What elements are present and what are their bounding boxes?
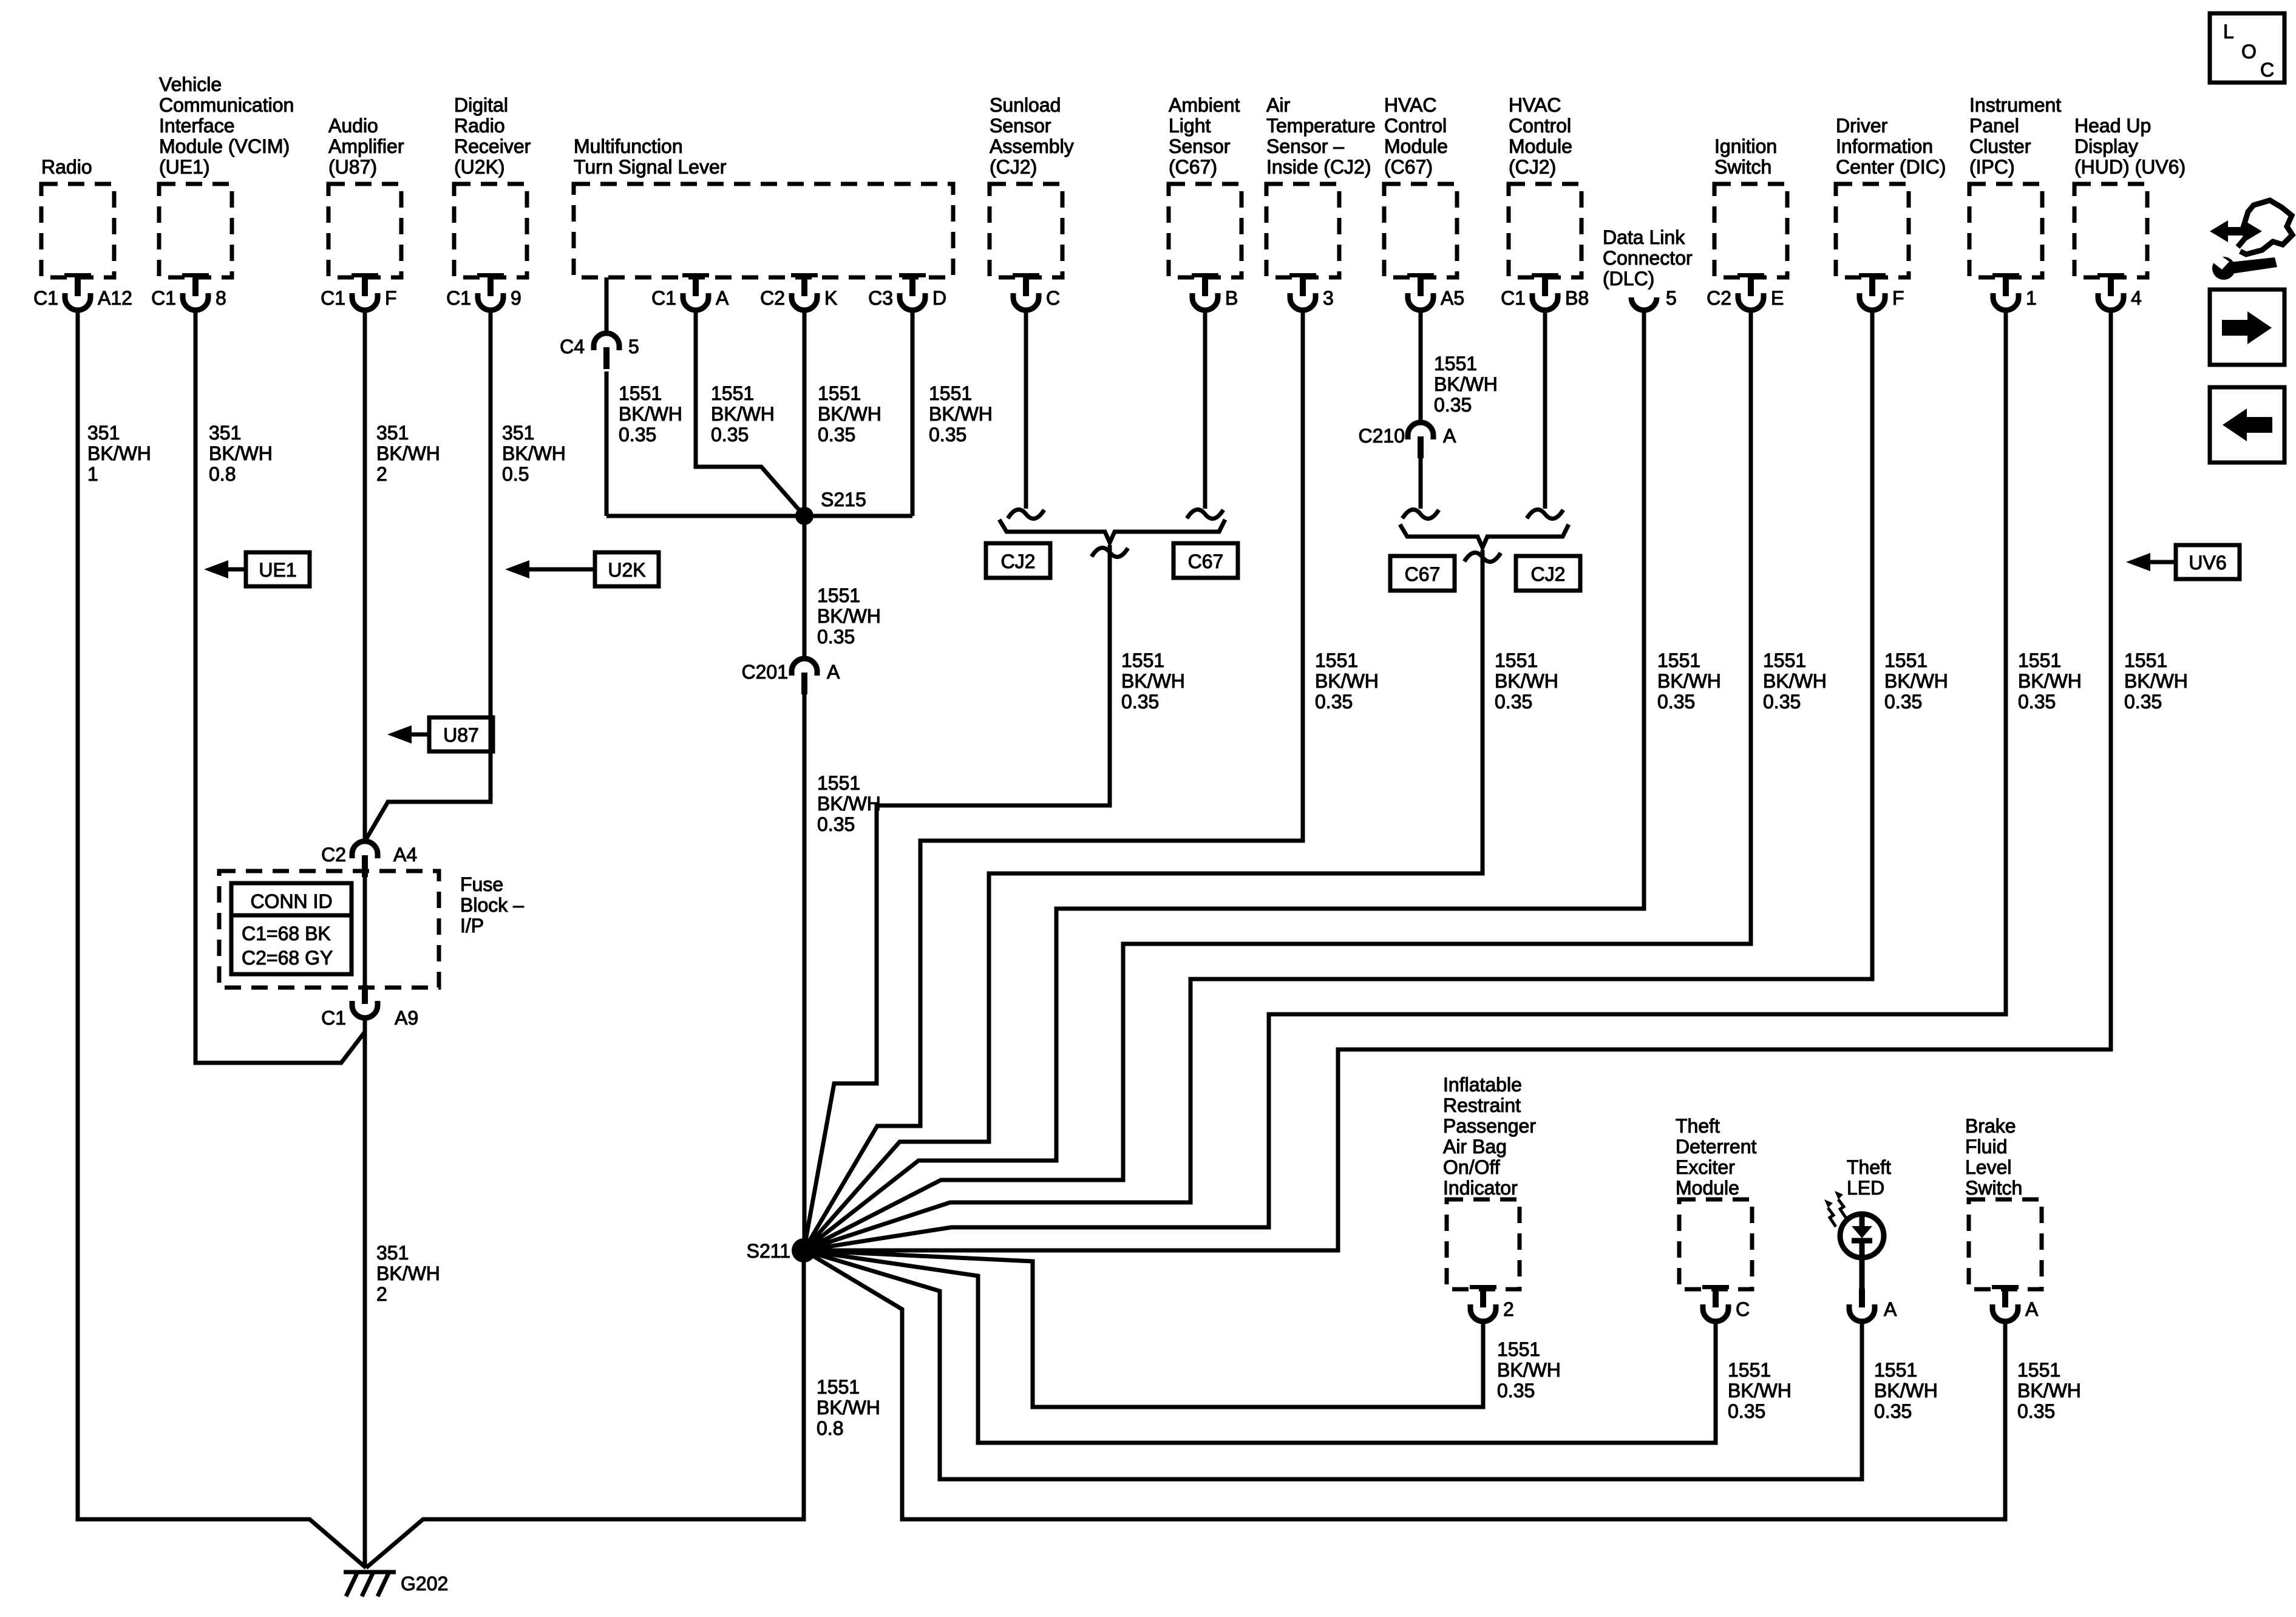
flag UV6 (to HUD wire) [2126,545,2240,579]
svg-text:A9: A9 [395,1007,418,1029]
component box: Head Up Display HUD UV6 [2074,184,2147,277]
svg-text:3: 3 [1323,287,1334,309]
wire: Air Temperature Sensor pin 3 1551 BK/WH 0.35 to S211 [804,310,1303,1250]
component box: HVAC Control Module C67 [1384,184,1457,277]
flag U87 (to Audio Amplifier wire) [387,717,493,751]
svg-text:C: C [1046,287,1060,309]
wire: fuse block 351 BK/WH 2 to ground [363,1018,367,1568]
wire: VCIM 351 BK/WH 0.8 to fuse block C1 A9 [195,310,365,1063]
svg-text:C: C [1736,1298,1750,1320]
ground G202 [344,1572,448,1596]
svg-text:CONN ID: CONN ID [250,890,332,912]
svg-text:O: O [2241,41,2257,63]
wire: S211 trunk 1551 BK/WH 0.8 to ground [366,1250,804,1568]
svg-text:A5: A5 [1441,287,1464,309]
wire: Ambient Light Sensor pin B 1551 BK/WH 0.35 [1203,310,1207,509]
svg-text:UE1: UE1 [259,559,296,581]
connector C210 pin A (inline) [1359,422,1457,458]
svg-text:C2=68 GY: C2=68 GY [242,947,333,969]
connector pin C of Sunload Sensor Assembly CJ2 [1013,273,1060,310]
component box: Ignition Switch [1714,184,1787,277]
net tag C67 (Ambient side) [1173,543,1238,578]
component box: HVAC Control Module CJ2 [1509,184,1581,277]
svg-text:C67: C67 [1188,551,1224,572]
component box: Ambient Light Sensor C67 [1169,184,1241,277]
wire: C201 to S211 1551 BK/WH 0.35 [803,694,807,1250]
svg-text:S211: S211 [747,1240,790,1262]
svg-text:2: 2 [1503,1298,1514,1320]
splice S215 [795,507,813,525]
svg-text:C: C [2260,59,2274,81]
strain squiggle (Sunload wire end) [1008,510,1044,519]
wire: S211 to Air Bag Indicator pin 2 1551 BK/WH 0.35 [804,1250,1483,1407]
connector pin F of Driver Information Center DIC [1859,273,1904,310]
svg-text:A: A [1884,1298,1897,1320]
harness brace (Sunload/Ambient) [999,520,1225,543]
svg-text:Radio: Radio [41,156,92,178]
connector pin C1/F of Audio Amplifier U87 [321,273,396,310]
connector pin 2 of Inflatable Restraint Passenger Air Bag On/Off Indicator [1470,1285,1514,1321]
svg-text:C3: C3 [868,287,893,309]
svg-text:U87: U87 [443,724,479,746]
svg-text:C1: C1 [446,287,471,309]
component box: Radio [41,184,114,277]
svg-text:C1: C1 [1501,287,1526,309]
net tag CJ2 (HVAC B8 side) [1516,556,1580,591]
left-arrow legend box [2210,387,2284,463]
svg-text:A: A [716,287,729,309]
component box: Driver Information Center DIC [1836,184,1909,277]
right-arrow legend box [2210,290,2284,365]
svg-text:TheftLED: TheftLED [1847,1156,1891,1199]
connector pin C1/A12 of Radio [33,273,132,310]
connector pin C2/E of Ignition Switch [1707,273,1784,310]
wire: Ignition Switch C2-E 1551 BK/WH 0.35 to S211 [804,310,1751,1250]
svg-text:UV6: UV6 [2189,552,2226,574]
component box: Air Temperature Sensor - Inside CJ2 [1266,184,1339,277]
component box: Inflatable Restraint Passenger Air Bag On/Off Indicator [1447,1199,1520,1289]
svg-text:C1=68 BK: C1=68 BK [242,923,331,944]
connector pin C1/9 of Digital Radio Receiver U2K [446,273,521,310]
connector pin A of Theft LED [1849,1289,1897,1321]
svg-text:5: 5 [628,336,639,358]
component box: Digital Radio Receiver U2K [454,184,527,277]
wire: HVAC Control Module A5 1551 BK/WH 0.35 to C210 [1419,310,1423,422]
wire: S215 bus [606,514,912,518]
svg-text:A: A [827,661,840,683]
svg-text:F: F [1892,287,1904,309]
svg-text:E: E [1771,287,1784,309]
svg-text:C4: C4 [560,336,585,358]
svg-text:L: L [2223,21,2234,42]
component box: Fuse Block - I/P [219,871,439,988]
wire: S211 to Theft Deterrent pin C 1551 BK/WH 0.35 [804,1250,1716,1443]
connector C1 pin A9 (fuse block bottom) [321,985,418,1029]
wire: merged Sunload/Ambient 1551 BK/WH 0.35 to S211 [804,545,1110,1250]
component box: Sunload Sensor Assembly CJ2 [990,184,1062,277]
svg-text:F: F [385,287,397,309]
svg-text:C2: C2 [1707,287,1731,309]
svg-text:4: 4 [2131,287,2142,309]
LOC legend box [2210,13,2284,83]
component box: Audio Amplifier U87 [328,184,401,277]
wire: HUD pin 4 1551 BK/WH 0.35 to S211 [804,310,2111,1250]
svg-text:1: 1 [2026,287,2037,309]
CONN ID table [231,883,352,974]
connector pin C2/K of Multifunction Turn Signal Lever [760,273,837,310]
connector pin 5 of Data Link Connector [1631,287,1677,310]
svg-text:9: 9 [511,287,521,309]
svg-text:C1: C1 [321,287,345,309]
svg-text:C1: C1 [321,1007,346,1029]
net tag CJ2 (Sunload side) [986,543,1050,578]
connector pin 4 of Head Up Display HUD UV6 [2097,273,2142,310]
connector pin 3 of Air Temperature Sensor - Inside CJ2 [1289,273,1334,310]
wire: Theft LED to connector [1860,1256,1865,1289]
wire: Multifunction C4 stub [605,277,609,333]
svg-text:D: D [932,287,946,309]
svg-text:K: K [824,287,837,309]
flag U2K (to Digital Radio Receiver wire) [505,552,659,586]
wire: Audio Amplifier 351 BK/WH 2 to fuse block C2 A4 [363,310,367,841]
connector pin A5 of HVAC Control Module C67 [1407,273,1464,310]
svg-text:C1: C1 [151,287,176,309]
harness brace (HVAC modules) [1400,524,1569,547]
svg-text:C2: C2 [321,844,346,866]
strain squiggle (below HVAC brace center) [1464,553,1501,562]
wire: through fuse block [363,877,367,985]
svg-text:B8: B8 [1565,287,1589,309]
svg-text:5: 5 [1666,287,1677,309]
svg-text:A12: A12 [98,287,132,309]
connector pin A of Brake Fluid Level Switch [1992,1285,2039,1321]
svg-text:C1: C1 [651,287,676,309]
wire: merged HVAC 1551 BK/WH 0.35 to S211 [804,550,1483,1250]
component box: Vehicle Communication Interface Module VCIM UE1 [159,184,232,277]
flag UE1 (to VCIM wire) [204,552,310,586]
wire: DIC pin F 1551 BK/WH 0.35 to S211 [804,310,1872,1250]
svg-text:8: 8 [216,287,226,309]
svg-text:C2: C2 [760,287,785,309]
adjust icon (hand with wrench and double arrow) [2210,200,2292,280]
svg-text:U2K: U2K [608,559,645,581]
wire: Radio 351 BK/WH 1 to ground [78,310,366,1568]
strain squiggle (Ambient wire end) [1187,510,1223,519]
wire: S211 to Brake Fluid Level Switch pin A 1551 BK/WH 0.35 [804,1250,2005,1519]
wire: S211 to Theft LED pin A 1551 BK/WH 0.35 [804,1250,1862,1479]
svg-text:C201: C201 [742,661,789,683]
connector pin C1/8 of Vehicle Communication Interface Module VCIM UE1 [151,273,226,310]
wire: Multifunction C4-5 1551 BK/WH 0.35 to S215 [605,371,609,516]
svg-text:CJ2: CJ2 [1531,563,1566,585]
connector pin C of Theft Deterrent Exciter Module [1702,1285,1750,1321]
svg-text:C210: C210 [1359,425,1405,447]
strain squiggle (HVAC B8 wire end) [1527,510,1563,519]
strain squiggle (C210 wire end) [1402,510,1439,519]
connector C4 pin 5 (inline) [560,333,639,369]
connector pin C3/D of Multifunction Turn Signal Lever [868,273,946,310]
wire: Sunload Sensor pin C 1551 BK/WH 0.35 [1024,310,1028,509]
svg-text:CJ2: CJ2 [1001,551,1036,572]
connector C201 pin A (inline) [742,659,841,694]
component box: Brake Fluid Level Switch [1969,1199,2042,1289]
wire: C210 to brace [1419,458,1423,509]
svg-text:G202: G202 [401,1573,448,1595]
connector pin B of Ambient Light Sensor C67 [1192,273,1238,310]
svg-text:A4: A4 [393,844,417,866]
splice S211 [792,1238,816,1263]
wire: Multifunction C3-D 1551 BK/WH 0.35 to S215 [911,310,915,516]
svg-text:C67: C67 [1405,563,1441,585]
wire: Data Link Connector pin 5 1551 BK/WH 0.35 to S211 [804,310,1644,1250]
connector C2 pin A4 (fuse block top) [321,841,417,877]
svg-text:C1: C1 [33,287,58,309]
wire: Digital Radio Receiver 351 BK/WH 0.5 joining C2 A4 [365,310,491,841]
svg-text:S215: S215 [821,489,866,510]
svg-text:B: B [1225,287,1238,309]
connector pin 1 of Instrument Panel Cluster IPC [1992,273,2037,310]
wire: S215 to C201 1551 BK/WH 0.35 [803,516,807,659]
component box: Theft Deterrent Exciter Module [1679,1199,1752,1289]
connector pin C1/A of Multifunction Turn Signal Lever [651,273,729,310]
svg-text:A: A [2025,1298,2039,1320]
wire: IPC pin 1 1551 BK/WH 0.35 to S211 [804,310,2006,1250]
wire: Multifunction C1-A 1551 BK/WH 0.35 to S215 [696,310,804,516]
svg-text:A: A [1443,425,1456,447]
Theft LED symbol [1824,1191,1884,1258]
wire: Multifunction C2-K 1551 BK/WH 0.35 to S215 [803,310,807,516]
component box: Multifunction Turn Signal Lever [574,184,953,277]
svg-text:IgnitionSwitch: IgnitionSwitch [1714,135,1777,178]
net tag C67 (HVAC A5 side) [1390,556,1455,591]
connector pin C1/B8 of HVAC Control Module CJ2 [1501,273,1589,310]
wire: HVAC Control Module C1-B8 1551 BK/WH 0.35 [1543,310,1547,509]
component box: Instrument Panel Cluster IPC [1969,184,2042,277]
strain squiggle (below brace center) [1092,548,1128,557]
